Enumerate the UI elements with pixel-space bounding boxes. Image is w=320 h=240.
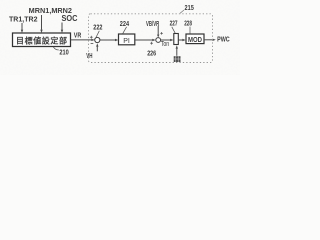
dashed box 215 (voltage control unit) — [89, 14, 213, 63]
wire SOC input arrow — [61, 23, 63, 34]
minus sign at subtractor (VH input) — [91, 42, 94, 44]
wire carrier into comparator — [176, 45, 178, 56]
summing junction (adder with VB/VR feedforward) — [156, 38, 161, 43]
plus sign above adder — [160, 32, 163, 35]
wire VR: setting box to subtractor — [71, 39, 95, 41]
carrier generator glyph — [174, 56, 181, 62]
plus sign at subtractor — [90, 36, 93, 39]
wire VB/VR feedforward into adder — [157, 26, 159, 37]
leader line from label 227 to comparator — [172, 27, 175, 33]
leader line from label 222 to junction — [96, 31, 99, 38]
block PI controller 224 — [119, 34, 135, 45]
leader line from label 224 to PI box — [123, 27, 127, 34]
scan noise overlay — [0, 0, 1, 1]
leader line from label 215 to dashed box — [180, 10, 184, 13]
wire MOD to PWC output — [204, 39, 216, 41]
leader line to label 210 — [53, 47, 59, 50]
wire adder to comparator (Ton signal) — [161, 39, 174, 41]
wire subtractor to PI — [100, 39, 118, 41]
plus sign left of adder — [150, 42, 153, 45]
wire TR1,TR2 input arrow — [21, 23, 23, 33]
wire VH feedback into subtractor — [96, 43, 98, 51]
block 目標値設定部 (target value setting unit) — [13, 33, 71, 47]
leader line from label 228 to MOD box — [189, 27, 191, 34]
block comparator 227 — [174, 34, 179, 45]
wire comparator to MOD — [179, 39, 186, 41]
wire PI to adder — [135, 39, 156, 41]
wire MRN1,MRN2 input arrow — [40, 15, 42, 33]
block MOD modulator 228 — [186, 34, 204, 44]
summing junction 222 (subtractor) — [95, 37, 100, 42]
